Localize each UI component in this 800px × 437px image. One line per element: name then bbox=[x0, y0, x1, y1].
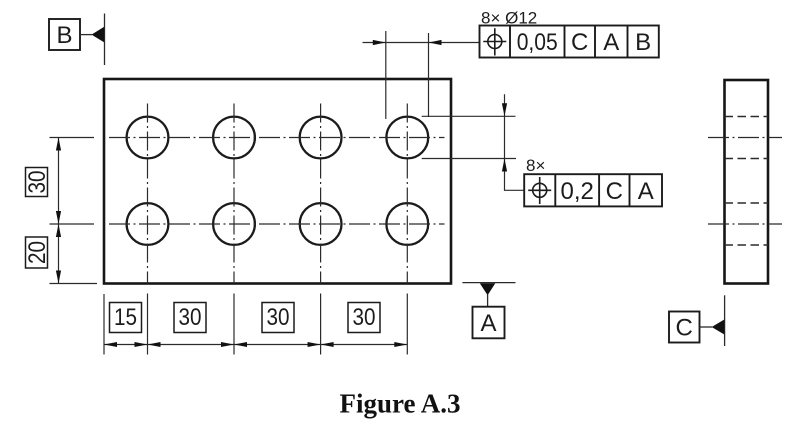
side view hidden line hole bottom tangent row 2 bbox=[725, 244, 769, 246]
datum B extension line bbox=[104, 14, 106, 66]
svg-text:0,05: 0,05 bbox=[517, 29, 558, 56]
centerline bottom hole row bbox=[109, 223, 445, 225]
position symbol frame 1 bbox=[483, 28, 506, 55]
svg-text:A: A bbox=[638, 178, 654, 205]
frame 2 tolerance value 0,2 bbox=[561, 178, 594, 205]
top dim extension line right tangent of hole H4 bbox=[428, 33, 430, 117]
frame 1 datum B bbox=[635, 29, 651, 56]
top dim extension line left tangent of hole H4 bbox=[385, 31, 387, 119]
svg-text:A: A bbox=[603, 29, 619, 56]
hole H8 bottom row col 4 bbox=[386, 203, 428, 245]
datum A extension line bbox=[462, 282, 515, 284]
svg-text:30: 30 bbox=[267, 304, 290, 331]
side view hidden line hole top tangent row 1 bbox=[725, 116, 769, 118]
centerline hole column 2 bbox=[233, 104, 235, 284]
right vertical dimension line and leader to frame 2 bbox=[505, 94, 525, 190]
svg-text:15: 15 bbox=[114, 304, 137, 331]
side view centerline row 1 bbox=[708, 137, 782, 139]
svg-text:30: 30 bbox=[24, 171, 51, 194]
bottom horizontal dimension line bbox=[104, 344, 407, 346]
svg-text:30: 30 bbox=[353, 304, 376, 331]
centerline hole column 3 bbox=[320, 104, 322, 284]
frame 1 datum A bbox=[603, 29, 619, 56]
arrow up at row1 bbox=[56, 138, 61, 151]
boxed dimension 30 (second) bbox=[262, 303, 294, 333]
boxed dimension 30 (third) bbox=[348, 303, 380, 333]
datum C symbol bbox=[669, 312, 724, 343]
svg-text:Figure A.3: Figure A.3 bbox=[340, 389, 461, 419]
centerline top hole row bbox=[109, 137, 445, 139]
arrow down at row2 (dim 30) bbox=[56, 211, 61, 224]
bottom extension line col 3 bbox=[320, 294, 322, 355]
hole H2 top row col 2 bbox=[213, 117, 255, 159]
label 8x above frame 2 bbox=[526, 156, 545, 175]
side view outline bbox=[725, 80, 769, 284]
right dim extension line lower tangent of hole H4 bbox=[422, 158, 516, 160]
hole H3 top row col 3 bbox=[300, 117, 342, 159]
svg-text:C: C bbox=[606, 178, 623, 205]
svg-text:C: C bbox=[676, 315, 693, 342]
datum C extension line bbox=[724, 295, 726, 346]
frame 1 datum C bbox=[571, 29, 588, 56]
right dim extension line upper tangent of hole H4 bbox=[422, 115, 516, 117]
svg-text:B: B bbox=[56, 22, 72, 49]
frame 2 datum C bbox=[606, 178, 623, 205]
boxed dimension 30 (first) bbox=[174, 303, 206, 333]
left vertical dimension line bbox=[58, 138, 60, 284]
top dim arrow pointing left bbox=[429, 40, 442, 45]
bottom extension line col 2 bbox=[233, 294, 235, 355]
bottom extension line plate left edge bbox=[103, 294, 105, 355]
centerline hole column 4 bbox=[406, 104, 408, 284]
frame 2 datum A bbox=[638, 178, 654, 205]
svg-text:0,2: 0,2 bbox=[561, 178, 594, 205]
centerline hole column 1 bbox=[147, 104, 149, 284]
svg-text:30: 30 bbox=[179, 304, 202, 331]
bottom extension line col 1 bbox=[147, 294, 149, 355]
datum B symbol bbox=[49, 19, 104, 50]
datum A symbol bbox=[473, 283, 505, 338]
hole H4 top row col 4 bbox=[386, 117, 428, 159]
hole H5 bottom row col 1 bbox=[127, 203, 169, 245]
feature control frame 2 bbox=[524, 174, 662, 206]
hole H7 bottom row col 3 bbox=[300, 203, 342, 245]
left dimension extension line plate bottom bbox=[50, 283, 98, 285]
feature control frame 1 bbox=[480, 26, 659, 58]
bottom arrows bbox=[104, 342, 407, 347]
plate front view outline bbox=[104, 79, 451, 284]
top dim arrow pointing right bbox=[373, 40, 386, 45]
svg-text:C: C bbox=[571, 29, 588, 56]
hole H6 bottom row col 2 bbox=[213, 203, 255, 245]
label 8x O12 above frame 1 bbox=[481, 9, 537, 28]
left dimension extension line row 1 bbox=[50, 137, 95, 139]
boxed dimension 15 bbox=[110, 303, 142, 333]
svg-text:B: B bbox=[635, 29, 651, 56]
side view hidden line hole top tangent row 2 bbox=[725, 202, 769, 204]
svg-text:20: 20 bbox=[24, 241, 51, 264]
svg-text:A: A bbox=[480, 310, 496, 337]
position symbol frame 2 bbox=[528, 177, 551, 204]
frame 1 tolerance value 0,05 bbox=[517, 29, 558, 56]
hole H1 top row col 1 bbox=[127, 117, 169, 159]
left dimension extension line row 2 bbox=[50, 223, 95, 225]
right dim arrow pointing up bbox=[502, 159, 507, 172]
boxed dimension 30 vertical bbox=[24, 168, 51, 197]
top dimension line to frame 1 bbox=[363, 42, 480, 44]
svg-text:8×: 8× bbox=[526, 156, 545, 175]
boxed dimension 20 vertical bbox=[24, 237, 51, 268]
bottom extension line col 4 bbox=[406, 294, 408, 355]
caption Figure A.3 bbox=[340, 389, 461, 419]
side view centerline row 2 bbox=[708, 223, 782, 225]
arrow up at row2 (dim 20) bbox=[56, 224, 61, 237]
side view hidden line hole bottom tangent row 1 bbox=[725, 158, 769, 160]
arrow down at plate bottom bbox=[56, 271, 61, 284]
right dim arrow pointing down bbox=[502, 103, 507, 116]
